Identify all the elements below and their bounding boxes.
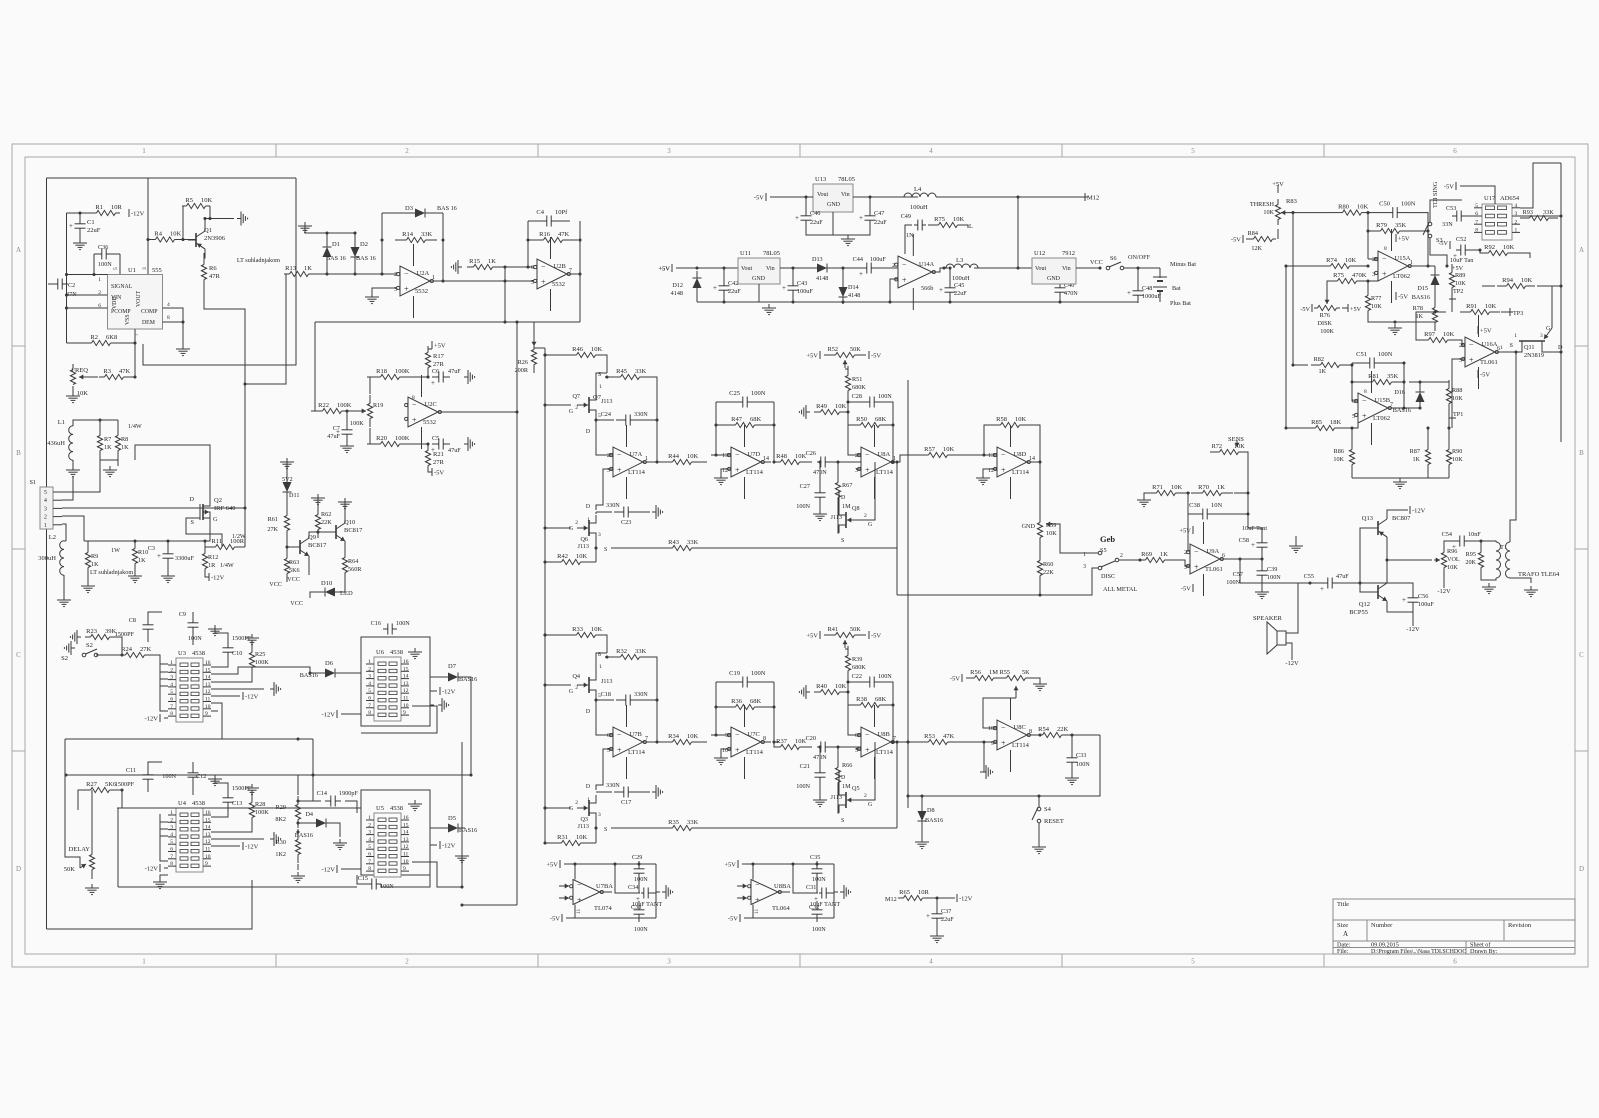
svg-text:C30: C30 [631, 904, 641, 911]
wire mid bottom links [460, 903, 463, 906]
op-amp U7A LT114 [613, 447, 643, 477]
svg-text:10K: 10K [1371, 303, 1382, 310]
svg-text:8: 8 [1029, 729, 1032, 735]
svg-text:10: 10 [988, 726, 994, 732]
svg-text:U16A: U16A [1482, 341, 1498, 348]
svg-text:D13: D13 [812, 256, 823, 263]
wire U8B out to R53 [891, 741, 908, 743]
svg-text:1: 1 [142, 147, 146, 155]
jfet Q3 J113 [588, 800, 590, 816]
svg-text:1K: 1K [138, 557, 146, 564]
power -12V U6 right [439, 687, 441, 695]
svg-text:+: + [404, 285, 409, 294]
resistor R94 [1497, 285, 1507, 287]
svg-text:100K: 100K [395, 435, 410, 442]
svg-text:D16: D16 [1394, 389, 1405, 396]
svg-text:4148: 4148 [848, 292, 860, 299]
svg-text:R3: R3 [103, 368, 111, 375]
transistor Q10 BC817 [335, 525, 337, 539]
wire S1 pin3 long to R13 [62, 507, 245, 509]
svg-text:Vout: Vout [1035, 266, 1047, 272]
wire top-left loop [47, 177, 297, 179]
wire S1 pin1 [62, 524, 66, 541]
op-amp U16A TL061 [1465, 337, 1495, 367]
svg-text:C33: C33 [1076, 752, 1086, 759]
op-amp U2C 5532 [408, 397, 438, 427]
svg-text:6: 6 [368, 852, 371, 858]
svg-text:BC807: BC807 [1392, 515, 1411, 522]
svg-text:6: 6 [531, 265, 534, 271]
svg-text:S: S [841, 538, 844, 544]
svg-text:R30: R30 [276, 839, 286, 846]
svg-text:C50: C50 [1379, 201, 1390, 208]
svg-text:15: 15 [205, 667, 211, 673]
svg-text:78L05: 78L05 [838, 176, 855, 183]
svg-text:J113: J113 [601, 678, 612, 685]
svg-text:D: D [586, 429, 590, 435]
resistor R64 560R [344, 549, 346, 558]
svg-text:1K2: 1K2 [275, 851, 286, 858]
wire Q8 gate right [858, 505, 875, 520]
svg-text:+5V: +5V [1480, 328, 1492, 335]
svg-text:+5V: +5V [1179, 528, 1191, 535]
resistor R49 [816, 411, 821, 413]
flag TP3 [1509, 308, 1511, 316]
ground [291, 872, 305, 883]
svg-text:U13: U13 [815, 176, 826, 183]
wire 555 pin7 [134, 329, 136, 377]
capacitor C20 [817, 746, 821, 748]
svg-text:U6: U6 [376, 649, 385, 656]
svg-text:C8: C8 [129, 617, 136, 624]
svg-text:U7A: U7A [630, 451, 643, 458]
wire bus x545 to row2 [543, 633, 546, 636]
wire Q10 collector [344, 498, 346, 518]
wire U9A out [1220, 558, 1262, 560]
svg-text:LT suhladnjakom: LT suhladnjakom [237, 257, 280, 264]
svg-text:35K: 35K [1395, 222, 1407, 229]
svg-text:10K: 10K [835, 403, 847, 410]
svg-text:L: L [969, 223, 973, 230]
svg-text:22uF: 22uF [728, 288, 741, 295]
svg-text:1K: 1K [1318, 368, 1326, 375]
svg-text:VCC: VCC [287, 576, 300, 583]
svg-text:BAS 16: BAS 16 [326, 255, 346, 262]
capacitor C15 [367, 883, 372, 885]
svg-text:8: 8 [1384, 246, 1387, 252]
svg-text:22uF: 22uF [941, 916, 954, 923]
svg-text:U8C: U8C [1014, 724, 1026, 731]
svg-text:VOL: VOL [1447, 556, 1460, 563]
svg-text:-12V: -12V [959, 896, 973, 903]
ground [721, 469, 731, 474]
svg-text:47K: 47K [558, 231, 570, 238]
jfet Q4 J113 [588, 677, 590, 693]
svg-text:R72: R72 [1212, 443, 1222, 450]
svg-text:U9A: U9A [1207, 548, 1220, 555]
svg-text:9: 9 [725, 733, 728, 739]
svg-text:Vin: Vin [841, 192, 850, 198]
wire Q5 G down [874, 742, 876, 785]
wire U15B out [1388, 407, 1404, 409]
svg-text:C42: C42 [728, 280, 738, 287]
svg-text:R34: R34 [668, 733, 680, 740]
svg-text:18K: 18K [1330, 419, 1342, 426]
IC U3 4538 [176, 658, 203, 722]
svg-text:VIN: VIN [111, 295, 122, 301]
svg-text:50K: 50K [64, 866, 76, 873]
svg-text:C6: C6 [432, 368, 439, 375]
resistor R16 [528, 239, 544, 241]
capacitor C5 [432, 443, 439, 445]
svg-text:R45: R45 [616, 368, 627, 375]
svg-text:C: C [16, 651, 21, 659]
svg-text:10K: 10K [1333, 456, 1344, 463]
resistor R7 1K [99, 427, 101, 436]
resistor R82 1K [1311, 364, 1321, 366]
svg-text:2: 2 [170, 667, 173, 673]
svg-text:B: B [16, 449, 21, 457]
svg-text:R87: R87 [1410, 448, 1420, 455]
capacitor C14 1900pF [325, 800, 331, 802]
svg-text:+: + [1320, 585, 1324, 593]
op-amp U8BA TL064 [742, 863, 834, 865]
resistor R78 1K [1434, 289, 1436, 303]
svg-text:100N: 100N [878, 673, 892, 680]
resistor R5 [182, 205, 187, 207]
svg-text:−: − [1001, 724, 1006, 733]
svg-text:2: 2 [607, 453, 610, 459]
op-amp U7BA TL074 [564, 863, 656, 865]
svg-text:16: 16 [403, 815, 409, 821]
svg-text:Revision: Revision [1508, 922, 1532, 929]
svg-text:C45: C45 [954, 282, 964, 289]
diode D12 4148 [696, 271, 698, 278]
svg-text:+5V: +5V [806, 353, 818, 360]
svg-text:D: D [586, 784, 590, 790]
switch S4 RESET [1037, 807, 1041, 811]
svg-text:+: + [1362, 412, 1367, 421]
svg-text:330N: 330N [606, 782, 620, 789]
svg-text:100uF: 100uF [870, 256, 886, 263]
svg-text:10R: 10R [918, 889, 930, 896]
svg-text:C53: C53 [1446, 205, 1456, 212]
svg-text:LT114: LT114 [876, 469, 894, 476]
svg-text:R86: R86 [1334, 448, 1344, 455]
svg-text:DEM: DEM [142, 320, 155, 326]
wire decouple right rail [833, 864, 835, 918]
svg-text:R13: R13 [285, 265, 296, 272]
wire S1 area bus [88, 540, 135, 542]
ground bus [1352, 477, 1449, 479]
svg-text:5532: 5532 [423, 419, 436, 426]
svg-text:33K: 33K [1543, 209, 1554, 216]
svg-text:13: 13 [988, 453, 994, 459]
resistor R71 [1151, 492, 1157, 494]
svg-text:35K: 35K [1387, 373, 1399, 380]
svg-text:1K: 1K [1160, 551, 1168, 558]
svg-text:4: 4 [170, 832, 173, 838]
resistor R21 27R [427, 444, 429, 451]
svg-text:GND: GND [1022, 523, 1036, 530]
svg-text:−: − [617, 451, 622, 460]
power -12V flag [242, 692, 244, 700]
svg-text:TP1: TP1 [1453, 411, 1463, 418]
wire diode top [305, 226, 355, 233]
svg-text:-5V: -5V [1181, 586, 1191, 593]
svg-text:L1: L1 [58, 419, 65, 426]
svg-text:R49: R49 [816, 403, 827, 410]
jfet Q6 J113 [588, 520, 590, 536]
svg-text:1: 1 [1514, 333, 1517, 339]
svg-text:10K: 10K [1485, 303, 1497, 310]
svg-text:3: 3 [368, 830, 371, 836]
svg-text:C38: C38 [1189, 502, 1200, 509]
switch S2 [64, 641, 75, 655]
svg-text:U8BA: U8BA [774, 883, 791, 890]
resistor R2 [80, 342, 92, 344]
svg-text:-5V: -5V [728, 916, 738, 923]
svg-text:3: 3 [1515, 211, 1518, 217]
capacitor C25 [716, 401, 743, 403]
svg-text:14: 14 [205, 675, 211, 681]
svg-text:C46: C46 [810, 210, 820, 217]
svg-text:2N3906: 2N3906 [204, 235, 226, 242]
svg-text:+5V: +5V [1398, 236, 1410, 243]
svg-text:-12V: -12V [1406, 626, 1420, 633]
power +5V flag [819, 351, 821, 359]
resistor R38 [848, 704, 861, 706]
capacitor C6 [432, 376, 439, 378]
capacitor C1 [79, 216, 81, 224]
svg-text:+: + [926, 912, 930, 920]
svg-text:C: C [1579, 651, 1584, 659]
capacitor C3 3300uF [167, 546, 169, 554]
capacitor C13 1500PF [208, 775, 222, 786]
svg-text:2: 2 [405, 147, 409, 155]
capacitor C44 [862, 267, 867, 269]
svg-text:PCOMP: PCOMP [111, 309, 131, 315]
svg-text:22K: 22K [1043, 569, 1054, 576]
svg-text:1: 1 [1410, 260, 1413, 266]
svg-text:-12V: -12V [211, 575, 225, 582]
svg-text:1: 1 [1515, 228, 1518, 234]
svg-text:+: + [157, 552, 161, 560]
svg-text:G: G [868, 802, 872, 808]
svg-text:13: 13 [403, 837, 409, 843]
svg-text:S4: S4 [1044, 806, 1052, 813]
wire U3 left bus [160, 664, 168, 711]
resistor R60 22K [1039, 552, 1041, 561]
svg-text:R75: R75 [934, 216, 945, 223]
svg-text:27K: 27K [267, 526, 278, 533]
svg-text:2N3819: 2N3819 [1524, 352, 1544, 359]
ground [652, 785, 663, 799]
trimmer R76 DISK [1326, 297, 1328, 304]
svg-text:R15: R15 [469, 258, 480, 265]
inductor L2 300uH [60, 541, 64, 575]
wire R22 left net [315, 322, 321, 411]
svg-text:R4: R4 [154, 231, 162, 238]
svg-text:+: + [541, 278, 546, 287]
svg-text:13: 13 [205, 682, 211, 688]
svg-text:IRF 640: IRF 640 [214, 505, 236, 512]
op-amp U8D LT114 [997, 447, 1027, 477]
svg-text:C12: C12 [196, 773, 206, 780]
svg-text:BAS16: BAS16 [1393, 407, 1411, 414]
svg-text:R71: R71 [1152, 484, 1163, 491]
svg-text:2: 2 [1120, 553, 1123, 559]
svg-text:+: + [865, 466, 870, 475]
svg-text:+: + [1251, 541, 1255, 549]
svg-text:47uF: 47uF [1336, 573, 1349, 580]
svg-text:−: − [865, 451, 870, 460]
svg-text:+5V: +5V [1272, 181, 1284, 188]
svg-text:G: G [868, 522, 872, 528]
capacitor C48 1000uF [1137, 283, 1139, 291]
resistor R47 [719, 424, 736, 426]
resistor R73 10K [935, 224, 939, 226]
svg-text:Q1: Q1 [204, 227, 212, 234]
svg-text:U7BA: U7BA [596, 883, 613, 890]
capacitor C35 [816, 861, 818, 869]
resistor R68b 1M [837, 759, 839, 768]
op-amp U2B 5532 [537, 259, 567, 289]
svg-text:D12: D12 [672, 282, 683, 289]
wire Q6 gate [545, 527, 571, 529]
svg-text:Q10: Q10 [344, 519, 355, 526]
svg-text:100N: 100N [1267, 574, 1281, 581]
ground [270, 682, 281, 696]
resistor R97 [1419, 339, 1429, 341]
svg-text:D: D [1579, 865, 1584, 873]
trimmer R19 100K [369, 395, 371, 404]
svg-text:R8: R8 [121, 436, 128, 443]
svg-text:-5V: -5V [1444, 184, 1454, 191]
svg-text:D: D [586, 709, 590, 715]
svg-text:1: 1 [1500, 345, 1503, 351]
wire U8D out [1027, 461, 1040, 463]
svg-text:ALL METAL: ALL METAL [1103, 586, 1137, 593]
svg-text:1500PF: 1500PF [115, 781, 135, 788]
svg-text:BAS16: BAS16 [295, 832, 313, 839]
resistor R12 1R [204, 545, 206, 554]
wire Q5 gate right [858, 785, 875, 800]
svg-text:R74: R74 [1326, 257, 1338, 264]
svg-text:C5: C5 [432, 435, 439, 442]
svg-text:-12V: -12V [322, 867, 336, 874]
svg-text:33K: 33K [635, 368, 647, 375]
resistor R35 [611, 827, 673, 829]
svg-text:U12: U12 [1034, 250, 1045, 257]
svg-text:100N: 100N [751, 390, 766, 397]
svg-text:10K: 10K [1357, 204, 1369, 211]
ground [813, 796, 827, 807]
capacitor C47 [869, 208, 871, 216]
svg-text:DISK: DISK [1318, 320, 1333, 327]
svg-text:10N: 10N [1211, 502, 1223, 509]
svg-text:5: 5 [113, 267, 119, 270]
power flags U16A [1477, 326, 1479, 334]
svg-text:D1: D1 [332, 241, 340, 248]
wire Q8 G to row bus [874, 462, 876, 505]
svg-text:C58: C58 [1239, 537, 1249, 544]
svg-text:-5V: -5V [1480, 372, 1490, 379]
svg-text:VCC: VCC [1090, 259, 1103, 266]
svg-text:1: 1 [599, 664, 602, 670]
svg-text:U17: U17 [1484, 195, 1496, 202]
svg-text:14: 14 [403, 674, 409, 680]
label M12 [1084, 193, 1086, 201]
wire U7B pin5 to Q3 drain [596, 749, 613, 790]
svg-text:2: 2 [1515, 219, 1518, 225]
svg-text:R47: R47 [731, 416, 743, 423]
capacitor C37 [936, 906, 938, 914]
svg-text:3: 3 [44, 506, 47, 512]
resistor R63 5K6 [286, 550, 288, 559]
svg-text:10K: 10K [591, 346, 603, 353]
svg-text:100K: 100K [255, 659, 269, 666]
resistor R4 [148, 239, 156, 241]
svg-text:10uF Tan: 10uF Tan [1450, 257, 1473, 264]
svg-text:+: + [69, 222, 73, 230]
wire x1561 to R94 net [1552, 286, 1561, 328]
svg-text:R21: R21 [433, 451, 444, 458]
svg-text:11: 11 [403, 852, 409, 858]
svg-text:R43: R43 [668, 539, 679, 546]
wire U15A out [1408, 265, 1435, 267]
svg-text:10K: 10K [943, 446, 955, 453]
svg-text:D4: D4 [305, 811, 313, 818]
ground [464, 370, 475, 384]
svg-text:M12: M12 [885, 896, 897, 903]
svg-text:12: 12 [205, 839, 211, 845]
svg-text:LT114: LT114 [628, 749, 646, 756]
svg-text:LT062: LT062 [1393, 273, 1410, 280]
svg-text:R83: R83 [1286, 198, 1297, 205]
resistor R77 10K [1367, 287, 1369, 296]
svg-text:12: 12 [403, 688, 409, 694]
capacitor C19 [716, 681, 743, 683]
svg-text:R23: R23 [86, 628, 97, 635]
power +5V flag [671, 264, 673, 272]
svg-text:D: D [586, 504, 590, 510]
wire -5V to AD654 [1455, 182, 1457, 190]
svg-text:100N: 100N [812, 876, 826, 883]
svg-text:R19: R19 [373, 402, 383, 409]
svg-text:R85: R85 [1311, 419, 1322, 426]
power -12V flag [1291, 652, 1293, 660]
svg-text:U15A: U15A [1395, 255, 1411, 262]
wire Q7 gate to bus [545, 404, 571, 406]
wire decouple right rail [655, 864, 657, 918]
svg-text:C32: C32 [809, 904, 819, 911]
svg-text:8: 8 [170, 711, 173, 717]
svg-text:22uF: 22uF [874, 219, 887, 226]
transistor Q9 BC817 [299, 540, 301, 554]
wire to U9A pin2 [1188, 514, 1190, 551]
svg-text:6: 6 [1222, 553, 1225, 559]
svg-text:1M: 1M [989, 669, 998, 676]
svg-text:100uH: 100uH [910, 204, 928, 211]
svg-text:R84: R84 [1248, 230, 1258, 237]
wire y808 long [117, 807, 361, 809]
wire long y322 [315, 321, 580, 323]
svg-text:33K: 33K [687, 819, 699, 826]
diode D14 4148 [834, 267, 862, 269]
jfet Q7 J113 [588, 397, 590, 413]
svg-text:100uF: 100uF [1418, 601, 1434, 608]
